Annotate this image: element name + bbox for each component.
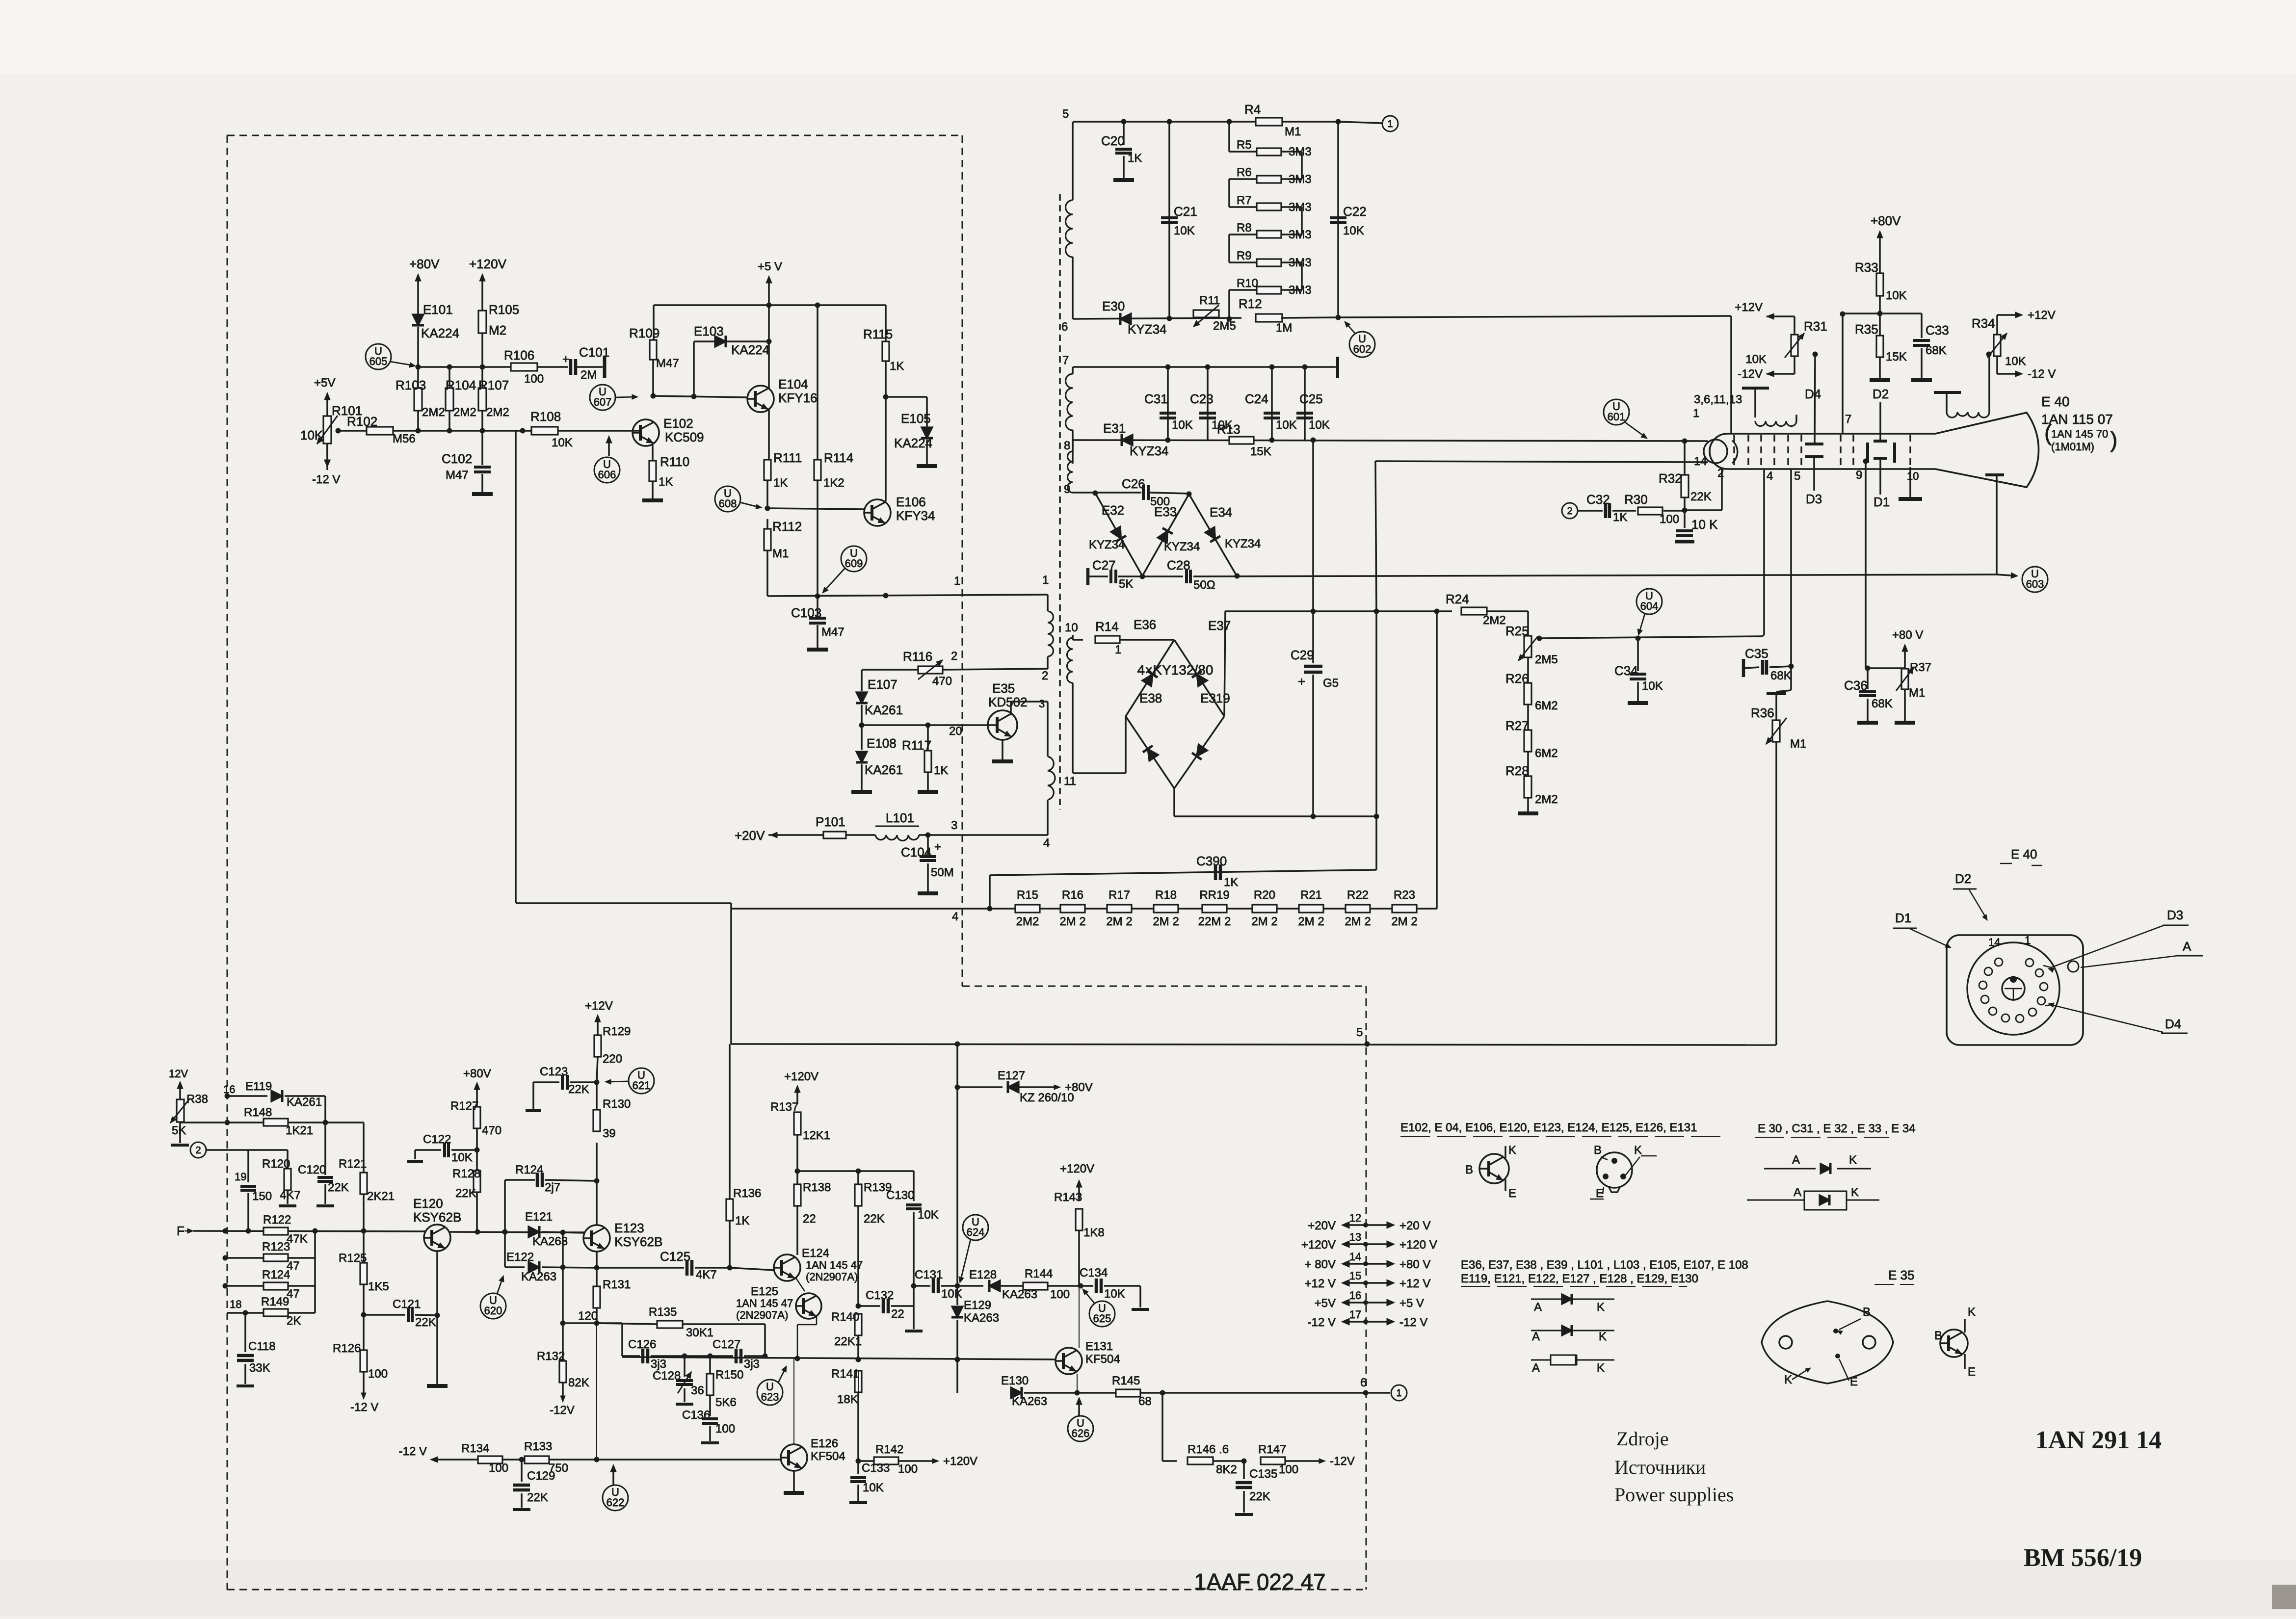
svg-text:603: 603 xyxy=(2026,578,2044,590)
svg-text:2M2: 2M2 xyxy=(1535,793,1558,806)
feedback resistor chain R15-R23 2M2 xyxy=(516,431,1437,928)
svg-text:R140: R140 xyxy=(831,1310,859,1324)
svg-text:30K1: 30K1 xyxy=(686,1326,713,1339)
svg-text:E36: E36 xyxy=(1134,617,1156,632)
svg-text:C123: C123 xyxy=(540,1065,568,1078)
capacitor C27 5K xyxy=(1088,558,1145,591)
svg-text:R125: R125 xyxy=(339,1252,367,1265)
svg-text:10K: 10K xyxy=(1886,289,1907,302)
svg-text:+120V: +120V xyxy=(784,1070,818,1083)
svg-text:605: 605 xyxy=(369,355,388,367)
capacitor C131 10K xyxy=(914,1268,962,1301)
svg-text:R11: R11 xyxy=(1199,294,1220,307)
svg-text:1K: 1K xyxy=(773,476,788,490)
wire node 7 row xyxy=(1062,354,1338,378)
svg-text:12: 12 xyxy=(1349,1212,1361,1224)
svg-text:2: 2 xyxy=(1567,506,1572,517)
svg-text:622: 622 xyxy=(607,1496,625,1509)
svg-text:R146 .6: R146 .6 xyxy=(1188,1443,1229,1456)
svg-text:150: 150 xyxy=(252,1190,272,1203)
resistor R106 100 xyxy=(504,348,568,386)
svg-text:D3: D3 xyxy=(1806,492,1822,506)
capacitor C34 10K xyxy=(1614,638,1663,703)
deflection coil left xyxy=(1742,388,1796,426)
wire R25 wiper row to CRT pin4 xyxy=(1537,636,1762,641)
title block texts xyxy=(1194,1426,2162,1594)
svg-text:KA263: KA263 xyxy=(1012,1395,1047,1408)
svg-text:C33: C33 xyxy=(1926,323,1949,338)
svg-text:K: K xyxy=(1849,1153,1857,1167)
potentiometer R25 2M5 xyxy=(1505,611,1558,666)
resistor R135 30K1 xyxy=(597,1306,765,1356)
svg-text:+12V: +12V xyxy=(1735,301,1763,314)
U603 measure point xyxy=(1997,567,2048,592)
diode E103 KA224 xyxy=(694,324,772,396)
U624 measure point xyxy=(959,1215,988,1283)
wire E127 node down xyxy=(955,1087,960,1289)
svg-text:A: A xyxy=(2183,939,2191,954)
wire node 5 top rail xyxy=(1062,107,1341,496)
svg-text:2M5: 2M5 xyxy=(1213,319,1236,333)
diode E127 KZ260/10 xyxy=(955,1044,1093,1104)
svg-text:470: 470 xyxy=(932,675,952,688)
capacitor C32 1K xyxy=(1586,492,1636,524)
svg-text:601: 601 xyxy=(1608,411,1626,423)
svg-text:+120V: +120V xyxy=(1301,1238,1336,1252)
svg-text:R132: R132 xyxy=(537,1350,565,1363)
svg-text:E104: E104 xyxy=(778,377,808,392)
svg-text:E130: E130 xyxy=(1001,1374,1029,1387)
U604 measure point xyxy=(1636,589,1662,635)
svg-text:R8: R8 xyxy=(1237,221,1252,235)
resistor R103 2M2 xyxy=(396,367,445,431)
svg-text:E32: E32 xyxy=(1102,503,1124,518)
svg-text:KYZ34: KYZ34 xyxy=(1164,540,1200,553)
diode E108 KA261 xyxy=(851,725,903,792)
svg-text:K: K xyxy=(1597,1301,1605,1314)
svg-text:100: 100 xyxy=(1660,513,1679,526)
wire bridge bottom return xyxy=(1174,788,1379,819)
svg-text:E: E xyxy=(1508,1187,1516,1200)
svg-text:C136: C136 xyxy=(682,1409,710,1422)
svg-text:L101: L101 xyxy=(886,810,914,825)
svg-text:R36: R36 xyxy=(1751,705,1774,720)
svg-text:R122: R122 xyxy=(263,1213,291,1227)
U606 measure point xyxy=(594,436,620,483)
capacitor C125 4K7 xyxy=(597,1249,774,1281)
capacitor C126 3j3 xyxy=(622,1338,687,1371)
svg-text:5: 5 xyxy=(1356,1026,1363,1039)
capacitor C104 50M polarized xyxy=(901,833,954,894)
svg-text:A: A xyxy=(1794,1186,1801,1199)
svg-text:2M 2: 2M 2 xyxy=(1251,915,1277,928)
svg-text:R107: R107 xyxy=(478,378,509,392)
svg-text:22: 22 xyxy=(803,1212,816,1226)
svg-text:5: 5 xyxy=(1062,107,1069,121)
svg-text:220: 220 xyxy=(603,1052,622,1066)
svg-text:R30: R30 xyxy=(1624,492,1648,507)
svg-text:E107: E107 xyxy=(868,677,897,692)
svg-text:4: 4 xyxy=(952,910,958,923)
svg-text:E 30 , C31 , E 32 , E 33 , E: E 30 , C31 , E 32 , E 33 , E 34 xyxy=(1758,1122,1916,1135)
svg-text:E101: E101 xyxy=(423,302,453,317)
svg-text:+12V: +12V xyxy=(585,999,613,1013)
svg-text:R116: R116 xyxy=(903,649,932,664)
svg-text:R9: R9 xyxy=(1237,249,1252,262)
svg-text:R110: R110 xyxy=(660,454,689,469)
svg-text:68K: 68K xyxy=(1770,669,1792,682)
svg-text:C134: C134 xyxy=(1080,1266,1108,1280)
svg-text:C27: C27 xyxy=(1092,558,1116,573)
svg-text:C133: C133 xyxy=(862,1462,890,1475)
svg-text:C34: C34 xyxy=(1614,663,1638,678)
svg-text:KA224: KA224 xyxy=(731,342,769,357)
svg-text:10: 10 xyxy=(1907,470,1919,482)
svg-text:C26: C26 xyxy=(1122,476,1145,491)
resistor R30 100 xyxy=(1624,492,1685,526)
svg-text:4: 4 xyxy=(1043,836,1050,850)
svg-text:B: B xyxy=(1594,1144,1602,1157)
wire E123 emitter xyxy=(596,1252,598,1268)
svg-text:16: 16 xyxy=(223,1083,235,1096)
svg-text:B: B xyxy=(1465,1163,1473,1176)
CRT pin 4 wire xyxy=(1761,469,1773,636)
svg-text:4: 4 xyxy=(1767,470,1773,483)
svg-text:3: 3 xyxy=(1039,698,1045,710)
wire R138 R139 top row xyxy=(797,1169,914,1174)
wire node 6 row xyxy=(1061,316,1241,334)
svg-text:KSY62B: KSY62B xyxy=(413,1210,461,1225)
resistor R104 2M2 xyxy=(446,367,476,431)
svg-text:R21: R21 xyxy=(1300,888,1322,902)
svg-text:1: 1 xyxy=(1115,643,1121,656)
HV multiplier diode E32 KYZ34 xyxy=(1089,493,1142,576)
svg-text:-12V: -12V xyxy=(1738,367,1763,381)
resistor R120 4K7 xyxy=(248,1150,301,1206)
resistor R140 22K1 xyxy=(831,1310,862,1362)
svg-text:A: A xyxy=(1534,1301,1542,1314)
svg-text:1K8: 1K8 xyxy=(1083,1226,1105,1239)
legend small transistor KF xyxy=(1934,1306,1976,1379)
svg-text:E124: E124 xyxy=(802,1247,829,1260)
capacitor C121 22K xyxy=(364,1298,437,1329)
svg-text:621: 621 xyxy=(633,1079,651,1092)
wire node R106 row xyxy=(416,365,511,370)
svg-text:1AN 145 47: 1AN 145 47 xyxy=(806,1259,863,1271)
svg-text:10K: 10K xyxy=(1745,353,1767,366)
resistor R117 1K xyxy=(902,725,948,792)
svg-text:C130: C130 xyxy=(886,1189,914,1202)
svg-text:10K: 10K xyxy=(1174,224,1195,237)
svg-text:+: + xyxy=(934,840,941,854)
svg-text:E108: E108 xyxy=(867,736,897,751)
capacitor C118 33K xyxy=(237,1313,276,1386)
wire E104 base node xyxy=(651,393,748,399)
resistor R123 47 xyxy=(223,1231,316,1286)
svg-text:C25: C25 xyxy=(1299,392,1323,406)
E40 CRT socket bottom view xyxy=(1893,847,2203,1045)
svg-text:BM 556/19: BM 556/19 xyxy=(2024,1544,2142,1572)
svg-text:E37: E37 xyxy=(1208,618,1231,633)
svg-text:2M2: 2M2 xyxy=(422,406,445,419)
svg-text:C23: C23 xyxy=(1190,392,1214,406)
svg-text:R127: R127 xyxy=(450,1099,478,1113)
U625 measure point xyxy=(1082,1289,1115,1327)
svg-text:607: 607 xyxy=(594,396,612,408)
svg-text:D2: D2 xyxy=(1873,387,1889,401)
svg-text:10K: 10K xyxy=(1276,418,1297,432)
svg-text:+12V: +12V xyxy=(2028,309,2056,322)
resistor R124 47 xyxy=(223,1268,316,1301)
svg-text:15: 15 xyxy=(1349,1270,1361,1282)
svg-text:C35: C35 xyxy=(1745,646,1768,661)
svg-text:E30: E30 xyxy=(1102,299,1125,313)
svg-text:C28: C28 xyxy=(1167,558,1190,573)
svg-text:R124: R124 xyxy=(262,1268,290,1281)
svg-text:R18: R18 xyxy=(1155,888,1177,902)
svg-text:620: 620 xyxy=(484,1305,502,1317)
svg-text:9: 9 xyxy=(1856,469,1862,482)
resistor R12 1M xyxy=(1239,296,1338,335)
svg-text:R120: R120 xyxy=(262,1157,290,1171)
svg-text:C132: C132 xyxy=(866,1289,894,1302)
svg-text:10K: 10K xyxy=(1104,1287,1125,1301)
resistor R134 100 xyxy=(461,1442,508,1475)
wire bridge output top xyxy=(1224,611,1225,716)
resistor R125 1K5 xyxy=(339,1231,389,1318)
svg-text:A: A xyxy=(1532,1330,1540,1343)
svg-text:C126: C126 xyxy=(628,1338,656,1351)
svg-text:E125: E125 xyxy=(751,1285,778,1298)
svg-text:36: 36 xyxy=(691,1384,704,1397)
CRT pin 10 ground xyxy=(1899,467,1922,499)
resistor R13 15K xyxy=(1217,422,1271,458)
power arrow +80V xyxy=(409,257,440,307)
svg-text:R149: R149 xyxy=(261,1295,289,1308)
svg-text:R144: R144 xyxy=(1025,1267,1053,1280)
svg-text:7: 7 xyxy=(1062,354,1069,367)
wire node 9 row xyxy=(1073,491,1192,497)
svg-text:M1: M1 xyxy=(772,547,789,560)
svg-text:6: 6 xyxy=(1061,320,1068,334)
svg-text:B: B xyxy=(1934,1329,1942,1342)
svg-text:R142: R142 xyxy=(875,1443,903,1456)
svg-text:-12 V: -12 V xyxy=(1308,1316,1336,1329)
wire E120 emitter xyxy=(427,1251,448,1386)
wire HV multiplier output to U603 xyxy=(1193,478,1997,579)
svg-text:M47: M47 xyxy=(446,469,469,482)
svg-text:C31: C31 xyxy=(1144,392,1168,406)
svg-text:2: 2 xyxy=(195,1145,201,1156)
svg-text:): ) xyxy=(2110,427,2117,452)
resistor R139 22K xyxy=(855,1171,892,1309)
fuse P101 xyxy=(735,814,846,843)
svg-text:10K: 10K xyxy=(918,1208,939,1222)
CRT pin 9 wire xyxy=(1856,459,1869,669)
capacitor C29 G5 polarized xyxy=(1291,440,1339,816)
deflection coil right xyxy=(1934,392,1989,418)
svg-text:E103: E103 xyxy=(694,324,724,339)
svg-text:19: 19 xyxy=(235,1171,246,1183)
U622 measure point xyxy=(603,1464,628,1511)
CRT deflection plates D4 D3 xyxy=(1805,387,1823,506)
capacitor C26 500 xyxy=(1122,476,1170,508)
wire U608 node xyxy=(765,506,865,511)
svg-text:2: 2 xyxy=(951,650,957,663)
svg-text:C127: C127 xyxy=(713,1338,740,1351)
potentiometer R11 2M5 xyxy=(1193,294,1236,333)
svg-text:KA261: KA261 xyxy=(865,762,903,777)
svg-text:D4: D4 xyxy=(1805,387,1821,401)
svg-text:B: B xyxy=(1863,1306,1871,1319)
svg-text:1K: 1K xyxy=(1613,511,1627,524)
svg-text:2K21: 2K21 xyxy=(367,1190,395,1203)
transistor E104 KFY16 xyxy=(747,305,818,412)
resistor R111 1K xyxy=(764,410,802,508)
capacitor C119 150 xyxy=(235,1171,272,1231)
potentiometer R38 5K xyxy=(169,1068,216,1145)
resistor R141 18K xyxy=(831,1367,862,1464)
svg-text:10K: 10K xyxy=(1309,418,1330,432)
resistor R133 750 xyxy=(524,1440,568,1475)
svg-text:4K7: 4K7 xyxy=(696,1268,717,1281)
resistor R150 5K6 xyxy=(707,1356,743,1416)
svg-text:1K: 1K xyxy=(1128,152,1142,165)
resistor R28 2M2 xyxy=(1505,752,1558,813)
svg-text:+80V: +80V xyxy=(463,1067,491,1080)
svg-text:10K: 10K xyxy=(941,1287,962,1301)
wire E124 E125 emitter chain xyxy=(796,1278,817,1358)
svg-text:E119, E121, E122, E127 , E128: E119, E121, E122, E127 , E128 , E129, E1… xyxy=(1461,1272,1698,1285)
terminal 1 top right xyxy=(1338,116,1398,131)
svg-text:KA224: KA224 xyxy=(421,326,459,340)
svg-text:K: K xyxy=(1597,1361,1605,1375)
svg-text:R147: R147 xyxy=(1258,1443,1286,1456)
wire +5V rail xyxy=(654,303,886,308)
svg-text:1K5: 1K5 xyxy=(368,1280,389,1293)
svg-text:KA263: KA263 xyxy=(521,1270,556,1283)
potentiometer R101 10K xyxy=(300,376,362,486)
svg-text:+12 V: +12 V xyxy=(1399,1277,1430,1290)
svg-text:8: 8 xyxy=(1064,439,1070,452)
svg-text:625: 625 xyxy=(1093,1312,1111,1325)
legend diode types E30-E34 xyxy=(1747,1122,1916,1210)
HV multiplier diode E34 KYZ34 xyxy=(1189,494,1261,576)
svg-text:R133: R133 xyxy=(524,1440,552,1453)
svg-text:E127: E127 xyxy=(998,1069,1025,1082)
svg-text:2M2: 2M2 xyxy=(1483,614,1506,627)
svg-text:KYZ34: KYZ34 xyxy=(1089,538,1125,551)
transistor E123 KSY62B xyxy=(583,1221,662,1252)
svg-text:R17: R17 xyxy=(1108,888,1130,902)
capacitor C136 100 xyxy=(682,1409,735,1443)
svg-text:-12 V: -12 V xyxy=(399,1445,427,1458)
svg-text:E131: E131 xyxy=(1085,1340,1113,1353)
svg-text:10K: 10K xyxy=(1343,224,1364,237)
svg-text:R27: R27 xyxy=(1505,718,1529,733)
HV multiplier diode E33 KYZ34 xyxy=(1142,494,1200,576)
wire DC rail R24 row xyxy=(1225,609,1452,614)
svg-text:604: 604 xyxy=(1640,600,1659,612)
capacitor C120 22K xyxy=(298,1123,349,1206)
transformer T101 primary winding xyxy=(1048,595,1054,669)
svg-text:624: 624 xyxy=(967,1226,985,1238)
svg-text:1K: 1K xyxy=(934,764,948,777)
svg-text:1: 1 xyxy=(954,574,960,588)
resistor R138 22 xyxy=(794,1171,831,1255)
svg-text:R15: R15 xyxy=(1017,888,1038,902)
svg-text:A: A xyxy=(1532,1361,1540,1375)
svg-text:C128: C128 xyxy=(653,1369,681,1383)
svg-text:(2N2907A): (2N2907A) xyxy=(736,1309,788,1321)
svg-text:R141: R141 xyxy=(831,1367,859,1381)
svg-text:+80 V: +80 V xyxy=(1892,628,1923,642)
svg-text:+80V: +80V xyxy=(1065,1081,1093,1094)
svg-text:KFY34: KFY34 xyxy=(896,508,935,523)
svg-text:F: F xyxy=(177,1224,185,1238)
svg-text:R121: R121 xyxy=(339,1157,367,1171)
svg-text:2M 2: 2M 2 xyxy=(1106,915,1132,928)
resistor R27 6M2 xyxy=(1505,705,1558,760)
potentiometer R31 10K xyxy=(1731,301,1827,444)
resistor R126 100 xyxy=(333,1315,388,1414)
wire main bias bus xyxy=(336,428,640,434)
resistor R107 2M2 xyxy=(478,367,509,431)
capacitor C24 10K xyxy=(1245,367,1297,440)
svg-text:-12V: -12V xyxy=(1330,1455,1355,1468)
svg-text:E31: E31 xyxy=(1103,421,1126,436)
svg-text:R148: R148 xyxy=(244,1106,272,1119)
wire HV feed row to right xyxy=(1336,315,1732,320)
svg-text:E120: E120 xyxy=(413,1196,443,1211)
svg-text:E 35: E 35 xyxy=(1888,1268,1915,1282)
svg-text:+5V: +5V xyxy=(1315,1297,1336,1310)
svg-text:1K: 1K xyxy=(1224,876,1238,889)
svg-text:18K: 18K xyxy=(837,1393,858,1406)
svg-text:R4: R4 xyxy=(1244,102,1261,117)
potentiometer R34 10K xyxy=(1972,309,2056,411)
svg-text:R143: R143 xyxy=(1054,1191,1082,1204)
svg-text:R104: R104 xyxy=(446,378,476,392)
U608 measure point xyxy=(715,486,762,512)
resistor R147 100 xyxy=(1258,1443,1355,1476)
svg-text:+80 V: +80 V xyxy=(1399,1258,1430,1271)
connector pins 12-17 power rails xyxy=(1301,1212,1437,1329)
transistor E125 1AN145 47 (2N2907A) xyxy=(736,1285,821,1321)
svg-text:+5 V: +5 V xyxy=(758,260,782,273)
svg-text:22K: 22K xyxy=(455,1187,476,1200)
resistor R108 10K xyxy=(530,409,573,449)
transformer T101 secondary winding xyxy=(1067,635,1073,773)
svg-text:13: 13 xyxy=(1349,1231,1361,1243)
svg-text:4×KY132/80: 4×KY132/80 xyxy=(1137,662,1214,678)
svg-text:E105: E105 xyxy=(901,411,931,426)
HV divider ladder R5-R10 3M3 xyxy=(1229,122,1312,319)
svg-text:R20: R20 xyxy=(1254,888,1275,902)
diode E101 KA224 xyxy=(412,302,459,367)
svg-text:2: 2 xyxy=(1042,669,1048,682)
capacitor C33 68K xyxy=(1911,313,1949,380)
svg-text:R103: R103 xyxy=(396,378,426,392)
svg-text:1: 1 xyxy=(2025,934,2031,946)
svg-text:50M: 50M xyxy=(931,866,954,879)
resistor R146 8K2 xyxy=(1162,1393,1247,1476)
svg-text:10: 10 xyxy=(1065,621,1078,634)
resistor R105 M2 xyxy=(478,302,519,367)
svg-text:R112: R112 xyxy=(772,519,802,534)
svg-text:R22: R22 xyxy=(1347,888,1369,902)
resistor R148 1K21 xyxy=(216,1106,364,1172)
